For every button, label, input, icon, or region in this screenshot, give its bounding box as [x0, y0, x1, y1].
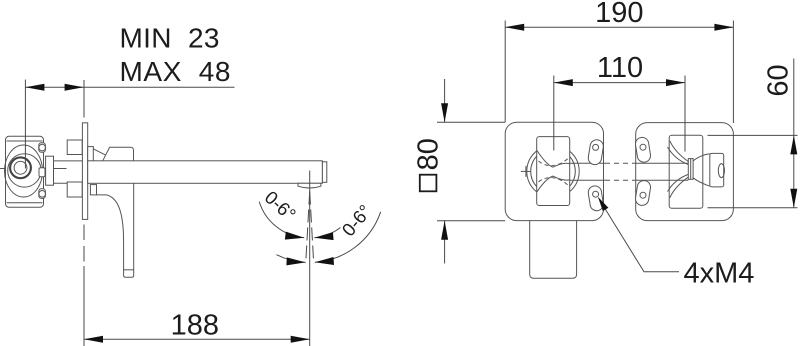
swivel arc upper right	[314, 226, 342, 238]
handle collar	[88, 147, 94, 162]
dimension 188 line	[83, 266, 85, 346]
cartridge ellipse	[5, 145, 43, 197]
supply tube behind wall	[54, 160, 83, 162]
right valve cap	[710, 153, 724, 187]
left wall plate square	[505, 122, 603, 220]
swivel arc lower right	[315, 212, 381, 262]
dimension 110 line	[554, 82, 685, 84]
extension line wall face	[83, 80, 85, 118]
right wall plate square	[636, 123, 734, 221]
wall flange plate	[82, 123, 87, 220]
dimension 190 line	[505, 26, 733, 28]
svg-text:60: 60	[762, 64, 794, 96]
swivel line right	[310, 192, 314, 264]
svg-text:80: 80	[412, 138, 444, 170]
cartridge circle	[8, 154, 41, 187]
extension line body rear	[24, 80, 26, 169]
svg-text:MIN 23: MIN 23	[120, 23, 220, 54]
lever collar	[90, 185, 96, 195]
svg-text:MAX 48: MAX 48	[120, 56, 231, 87]
extension line 188 right	[309, 198, 311, 346]
dimension MIN/MAX line	[25, 86, 234, 88]
leader 4xM4	[604, 207, 679, 272]
svg-text:190: 190	[595, 0, 643, 29]
nut bottom	[67, 182, 82, 197]
lever handle	[97, 183, 134, 277]
wall centerline dashes	[83, 225, 85, 241]
boss top	[39, 143, 46, 152]
right plate tab bottom	[635, 180, 652, 207]
spout tube	[88, 161, 323, 184]
right valve trumpet curves	[670, 141, 689, 162]
connecting pipe	[570, 162, 606, 164]
aerator dish	[298, 183, 321, 188]
valve body	[6, 136, 44, 207]
arrow MIN right	[65, 84, 84, 91]
stem block	[46, 156, 54, 185]
svg-text:110: 110	[597, 52, 643, 84]
spout tip centerline	[309, 171, 311, 193]
stem inner circle	[14, 161, 27, 174]
left dome circles	[527, 145, 579, 197]
left handle bowtie	[537, 151, 570, 168]
handle hub trapezoid	[103, 147, 134, 161]
right handle body	[669, 135, 703, 208]
right plate tab top	[635, 136, 652, 163]
left handle body	[537, 137, 570, 206]
stem ring	[10, 157, 31, 178]
left plate tab top	[587, 139, 604, 166]
boss bottom	[39, 189, 46, 199]
outlet below left plate	[530, 220, 577, 278]
boss middle	[39, 168, 45, 177]
handle neck line	[93, 149, 106, 156]
right valve waist	[688, 159, 693, 180]
swivel arc lower left	[277, 255, 306, 263]
svg-text:188: 188	[171, 309, 219, 341]
spout end cap	[322, 162, 326, 183]
horizontal centerline valve	[0, 168, 67, 170]
dimension square-80	[420, 175, 437, 192]
svg-text:4xM4: 4xM4	[684, 258, 755, 290]
arrow MIN left	[25, 84, 44, 91]
nut top	[67, 140, 82, 155]
swivel arc upper left	[259, 202, 304, 238]
left plate tab bottom	[587, 185, 604, 212]
swivel line left	[306, 192, 310, 264]
